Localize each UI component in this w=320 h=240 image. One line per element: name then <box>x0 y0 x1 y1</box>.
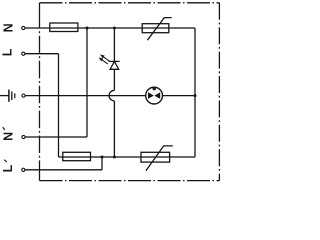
wire PE line <box>25 95 146 97</box>
gas discharge tube GDT <box>146 87 163 104</box>
svg-text:N: N <box>2 132 16 141</box>
wire L input <box>25 53 59 55</box>
junction node bottom rail / LED branch <box>113 156 116 159</box>
wire LED branch upper <box>113 28 115 61</box>
label N' <box>2 127 16 141</box>
enclosure border top <box>40 2 220 4</box>
wire L vertical <box>58 54 60 157</box>
wire LED branch middle <box>113 69 115 90</box>
LED D1 light arrows <box>99 54 110 64</box>
wire L' output <box>25 169 102 171</box>
fuse F2 <box>63 152 91 160</box>
svg-text:L: L <box>1 48 15 56</box>
enclosure border left <box>39 3 41 181</box>
wire L' vertical <box>101 157 103 170</box>
wire bottom rail <box>59 156 196 158</box>
enclosure border right <box>218 3 220 181</box>
junction node right rail / GDT <box>194 94 197 97</box>
junction node on N line at LED branch <box>113 27 116 30</box>
ground symbol PE <box>0 90 15 102</box>
terminal N <box>22 26 25 29</box>
wire crossover hop <box>109 90 114 101</box>
LED D1 <box>109 61 120 69</box>
wire LED branch lower <box>113 101 115 157</box>
svg-text:N: N <box>1 23 15 32</box>
wire right rail <box>194 28 196 157</box>
label L' <box>1 160 15 173</box>
fuse F1 <box>50 23 78 32</box>
wire N' output <box>25 136 87 138</box>
terminal L <box>22 52 25 55</box>
junction node bottom rail / L' <box>101 156 104 159</box>
terminal PE <box>22 94 25 97</box>
terminal N' <box>22 135 25 138</box>
wire N line <box>25 27 195 29</box>
svg-text:L: L <box>1 164 15 172</box>
varistor RV2 <box>141 146 173 171</box>
wire N' branch vertical <box>86 28 88 137</box>
enclosure border bottom <box>40 180 220 182</box>
varistor RV1 <box>142 18 172 41</box>
wire GDT to right rail <box>163 95 196 97</box>
junction node on N line at N' branch <box>86 27 89 30</box>
terminal L' <box>22 168 25 171</box>
